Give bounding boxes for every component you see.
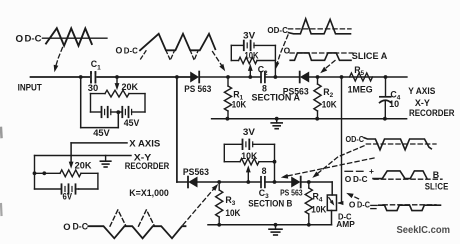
svg-text:PS563: PS563: [283, 86, 309, 96]
waveform: input triangle wave at O D-C level: [16, 28, 108, 46]
svg-text:45V: 45V: [124, 118, 140, 128]
potentiometer 10K (section B): [224, 151, 276, 165]
dashed arrow from OD-C waveform to C2 node: [273, 35, 288, 70]
battery 3V (section B) with box: [224, 127, 274, 162]
svg-text:20K: 20K: [75, 161, 92, 171]
svg-text:PS 563: PS 563: [184, 84, 211, 94]
wire: section B ground bus: [208, 211, 332, 225]
node: R1 top junction: [226, 75, 230, 79]
svg-text:D-C: D-C: [357, 200, 370, 209]
waveform: clipped triangle wave (bottom left, O D-C): [63, 210, 185, 239]
svg-text:10K: 10K: [225, 208, 241, 218]
node: C4 top junction: [384, 75, 388, 79]
svg-text:R5: R5: [354, 65, 364, 77]
wire: long vertical from Y node to D-C AMP: [337, 77, 343, 205]
battery 45V right: [111, 107, 145, 128]
X AXIS label: [129, 138, 160, 148]
svg-text:D-C: D-C: [124, 45, 138, 55]
battery 45V left: [91, 107, 111, 138]
svg-text:D-C: D-C: [73, 222, 89, 232]
wire: section A line after diode: [199, 76, 407, 78]
svg-text:R2: R2: [323, 87, 333, 99]
diode PS563 (section A shunt): [283, 72, 309, 97]
svg-text:X AXIS: X AXIS: [129, 138, 160, 148]
svg-text:R3: R3: [225, 195, 235, 207]
svg-text:O: O: [16, 34, 24, 45]
waveform: section B output clipped triangles (OD-C): [346, 134, 437, 150]
svg-text:SL!CE: SL!CE: [425, 181, 449, 191]
diode PS563 (section B shunt): [280, 177, 303, 198]
K=X1,000 scale note: [129, 188, 169, 198]
node: 20K wiper junction on input line: [115, 75, 119, 79]
svg-text:SLICE A: SLICE A: [352, 51, 388, 61]
capacitor C4 10 (polarized): [380, 77, 401, 119]
node: R1 bottom junction: [226, 117, 230, 121]
svg-text:R4: R4: [313, 191, 323, 203]
diode PS563 (input, section B): [183, 167, 209, 188]
node: R3 bottom junction: [217, 223, 221, 227]
node: R2 top junction: [316, 75, 320, 79]
svg-text:3V: 3V: [243, 127, 255, 137]
svg-text:10K: 10K: [232, 100, 247, 110]
resistor R1 10K: [224, 77, 246, 119]
svg-text:RECORDER: RECORDER: [409, 108, 455, 118]
resistor R4 10K: [305, 182, 327, 225]
node: C2 right junction: [274, 75, 278, 79]
node: junctions on pot wire: [33, 171, 47, 175]
svg-text:X-Y: X-Y: [415, 98, 430, 108]
ground (section B): [269, 223, 282, 235]
Y AXIS X-Y RECORDER label: [408, 86, 455, 118]
node: bus junction on input line: [175, 75, 179, 79]
wire: input line: [31, 76, 191, 78]
svg-text:PS 563: PS 563: [280, 188, 303, 198]
svg-text:C2: C2: [258, 65, 268, 77]
capacitor C3 8pF: [259, 166, 269, 200]
wiper arrow of section B pot: [246, 165, 251, 182]
INPUT label: [18, 83, 43, 93]
scan artifact left edge: [0, 128, 3, 215]
potentiometer 10K (section A): [231, 50, 275, 63]
battery 6V: [62, 184, 79, 201]
svg-text:SECTION B: SECTION B: [248, 198, 292, 208]
battery 3V (section A) with box: [231, 31, 275, 61]
svg-text:OD-C: OD-C: [346, 134, 365, 144]
wiper arrow of 6V 20K pot: [69, 162, 74, 169]
svg-text:OD-C: OD-C: [267, 25, 288, 35]
waveform: SLICE A trapezoid wave: [284, 45, 388, 61]
waveform: section A output clipped triangles (O D-C): [267, 19, 351, 35]
D-C AMP box: [327, 195, 355, 229]
svg-text:45V: 45V: [93, 127, 110, 138]
svg-text:INPUT: INPUT: [18, 83, 43, 93]
svg-text:C1: C1: [91, 59, 101, 71]
dashed arrow from SLICE A waveform to R2 node: [319, 61, 335, 76]
svg-text:SeekIC.com: SeekIC.com: [397, 225, 451, 236]
resistor R5 1MEG: [348, 65, 373, 94]
svg-text:RECORDER: RECORDER: [125, 161, 170, 171]
node: battery midpoint junction: [116, 110, 120, 114]
potentiometer 20K (input bias): [91, 82, 146, 97]
svg-text:O: O: [349, 199, 356, 209]
dashed arrow from top waveform to diode output node: [213, 52, 228, 73]
wire: 6V loop: [35, 156, 98, 190]
resistor R2 10K: [314, 77, 337, 119]
svg-text:PS563: PS563: [183, 167, 209, 177]
svg-text:10K: 10K: [311, 204, 327, 214]
node: input junction to 45V bias loop: [79, 75, 83, 79]
node: R2 bottom junction: [315, 117, 319, 121]
svg-text:O: O: [284, 45, 291, 55]
dashed arrow from bottom-left waveform to section B node: [183, 182, 220, 224]
svg-text:+: +: [369, 166, 374, 176]
node: R3 top junction: [217, 180, 221, 184]
svg-text:O: O: [116, 45, 123, 55]
svg-text:3V: 3V: [243, 31, 255, 41]
node: wiper junction section B: [246, 180, 250, 184]
node: C3 right junction: [273, 180, 277, 184]
dashed arrow from output waveform to D-C AMP: [345, 191, 358, 199]
svg-text:D-C: D-C: [353, 175, 368, 184]
wire: section B line: [177, 182, 332, 195]
wire: X AXIS output line: [71, 143, 127, 164]
wire: section A ground bus: [212, 118, 407, 120]
svg-text:30: 30: [88, 83, 99, 93]
SeekIC.com watermark: [397, 225, 451, 236]
ground (section A): [271, 117, 282, 129]
node: C4 bottom junction: [383, 117, 387, 121]
wire: vertical bus from input line to section B: [176, 77, 178, 182]
wire: section B box right vertical: [274, 144, 276, 182]
dashed arrow from OD-C waveform to R4 node: [311, 146, 364, 180]
svg-text:6V: 6V: [63, 191, 73, 201]
ground (X-Y recorder): [100, 156, 111, 168]
svg-text:20K: 20K: [122, 82, 139, 92]
wiper arrow of section A pot: [248, 64, 253, 77]
SECTION A label: [252, 93, 301, 103]
wire: 45V loop left/right verticals: [91, 94, 146, 112]
svg-text:Y AXIS: Y AXIS: [408, 86, 435, 96]
svg-text:AMP: AMP: [336, 219, 355, 229]
resistor R3 10K: [216, 182, 241, 225]
node: wiper junction section A: [248, 75, 252, 79]
capacitor C1 30pF: [88, 59, 101, 93]
svg-text:O: O: [63, 221, 70, 232]
waveform: sliced triangle wave (top center, O D-C): [116, 34, 216, 60]
dashed arrow from input waveform to INPUT wire: [52, 48, 62, 73]
capacitor C2 8pF: [258, 65, 268, 94]
svg-text:O: O: [345, 174, 352, 184]
dashed arrow from B SLICE waveform to C3 node: [280, 158, 374, 180]
diode PS563 (input, section A): [184, 72, 211, 94]
X-Y RECORDER label (left): [125, 153, 170, 171]
svg-text:D-C: D-C: [25, 34, 43, 44]
svg-text:8: 8: [262, 166, 267, 176]
wire: section A box right vertical: [274, 45, 276, 77]
wiper arrow of 45V 20K pot: [115, 77, 120, 90]
potentiometer 20K (X axis): [35, 161, 98, 177]
waveform: B SLICE trapezoid wave: [345, 166, 449, 191]
svg-text:K=X1,000: K=X1,000: [129, 188, 169, 198]
svg-text:1MEG: 1MEG: [348, 84, 373, 94]
node: R4 bottom junction: [307, 223, 311, 227]
wire: X-Y recorder line with box top: [35, 155, 132, 157]
wire: input node down to battery midpoint: [81, 77, 119, 128]
svg-text:10K: 10K: [322, 100, 338, 110]
SECTION B label: [248, 198, 292, 208]
waveform: D-C AMP output inverted trapezoids (O D-C): [349, 199, 441, 210]
node: R4 top junction: [307, 180, 311, 184]
svg-text:10: 10: [389, 99, 399, 109]
node: bus2 junction on section A line: [340, 75, 344, 79]
svg-text:B: B: [433, 170, 439, 180]
